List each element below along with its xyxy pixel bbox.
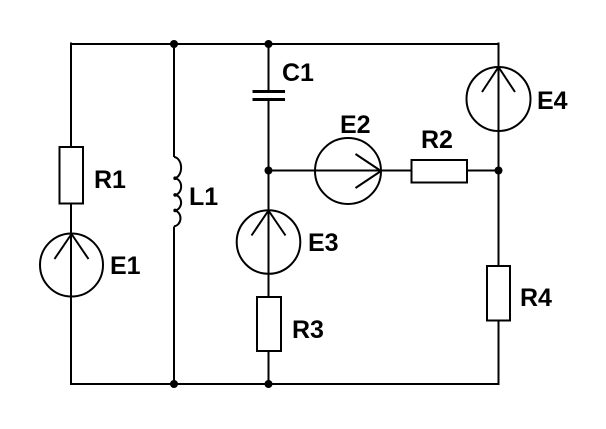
svg-text:R1: R1 xyxy=(94,166,126,194)
resistor R4 xyxy=(487,266,510,321)
wire middle horizontal xyxy=(269,170,499,172)
wire bottom bus xyxy=(70,383,500,385)
node top C1 tap xyxy=(265,40,273,48)
wire right branch xyxy=(498,43,500,385)
voltage source E1 xyxy=(40,234,103,297)
wire left branch xyxy=(70,43,72,385)
inductor L1 cusp knots xyxy=(173,176,177,212)
svg-text:E1: E1 xyxy=(110,252,141,280)
node bottom R3 tap xyxy=(265,380,273,388)
voltage source E3 xyxy=(237,210,301,274)
wire top bus xyxy=(70,43,500,45)
svg-text:E3: E3 xyxy=(308,229,339,257)
svg-text:E2: E2 xyxy=(340,111,371,139)
svg-text:L1: L1 xyxy=(189,183,218,211)
node middle C1/E2 junction xyxy=(265,167,273,175)
wire inductor branch lower xyxy=(173,227,175,385)
wire capacitor branch upper xyxy=(268,43,270,90)
wire capacitor branch lower xyxy=(268,101,270,385)
svg-text:E4: E4 xyxy=(537,87,568,115)
node top L1 tap xyxy=(170,40,178,48)
capacitor C1 xyxy=(253,92,286,100)
svg-text:R3: R3 xyxy=(292,316,324,344)
wire inductor branch upper xyxy=(173,43,175,157)
resistor R2 xyxy=(412,160,468,183)
resistor R1 xyxy=(60,147,84,204)
node right R2/E4 junction xyxy=(495,167,503,175)
svg-text:R4: R4 xyxy=(520,284,552,312)
inductor L1 xyxy=(174,157,181,226)
voltage source E2 xyxy=(315,138,381,204)
resistor R3 xyxy=(257,297,281,351)
svg-text:C1: C1 xyxy=(282,59,314,87)
svg-text:R2: R2 xyxy=(421,126,453,154)
voltage source E4 xyxy=(467,67,531,131)
node bottom L1 tap xyxy=(170,380,178,388)
